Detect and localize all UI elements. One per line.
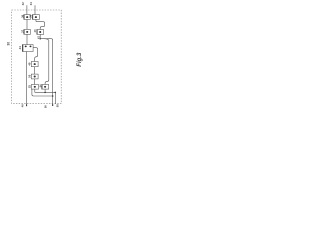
- wire U7 to U8: [34, 79, 36, 85]
- wire exit D: [54, 92, 56, 104]
- box U1: [24, 15, 31, 20]
- box U9: [42, 85, 49, 90]
- wire U8 left pin to low rail: [32, 89, 53, 96]
- svg-text:58: 58: [56, 104, 60, 107]
- svg-text:42: 42: [36, 36, 40, 39]
- wire U1 to U3: [26, 19, 28, 29]
- svg-text:56: 56: [44, 105, 48, 108]
- terminal blob output B: [52, 104, 54, 106]
- svg-text:40: 40: [33, 29, 37, 32]
- box U5: [22, 45, 33, 52]
- node rail end: [55, 92, 57, 94]
- wire U5 right to U6: [33, 48, 38, 62]
- wire input 2: [34, 5, 36, 14]
- wire U2 to U4 zigzag: [36, 19, 45, 29]
- wire bus right outer: [40, 39, 53, 106]
- svg-text:32: 32: [21, 2, 25, 5]
- svg-text:30: 30: [7, 42, 11, 46]
- box U3: [24, 30, 31, 35]
- wire U3 to U5: [26, 34, 28, 44]
- svg-text:44: 44: [18, 46, 22, 50]
- node low rail end: [52, 95, 54, 97]
- svg-text:34: 34: [29, 2, 33, 5]
- wire rail mid: [35, 91, 56, 93]
- wire U4 down to bus: [39, 34, 41, 38]
- wire U6 to U7: [34, 67, 36, 74]
- box U4: [37, 30, 44, 35]
- box U6: [31, 62, 38, 67]
- node junction: [39, 38, 41, 40]
- box U2: [32, 15, 39, 20]
- dashed enclosure box 30: [12, 10, 62, 104]
- svg-text:52: 52: [27, 85, 31, 89]
- box U8: [31, 85, 38, 90]
- box U7: [31, 74, 38, 79]
- wire input 1: [26, 5, 28, 14]
- svg-text:46: 46: [21, 104, 25, 107]
- svg-text:50: 50: [27, 74, 31, 78]
- wire U9 bottom pin: [44, 89, 46, 92]
- node rail U9: [44, 92, 46, 94]
- wire bus right inner: [44, 39, 49, 85]
- svg-text:Fig.3: Fig.3: [77, 52, 83, 67]
- wire U5 bottom to output: [26, 52, 28, 107]
- terminal blob output C: [26, 104, 28, 106]
- svg-text:48: 48: [27, 62, 31, 66]
- wire U8 center pin: [34, 89, 36, 92]
